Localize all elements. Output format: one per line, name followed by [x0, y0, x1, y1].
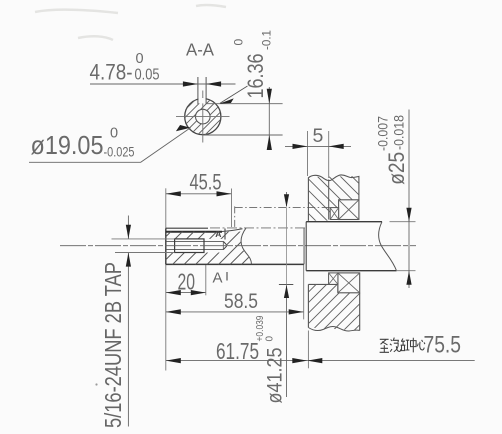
dim 4.78 arrows — [183, 81, 198, 86]
dim ø19.05 leader — [29, 128, 191, 163]
seal bore bottom tick — [279, 284, 293, 286]
drill point — [223, 241, 227, 249]
ext 45.5 right — [231, 189, 233, 228]
svg-text:A-A: A-A — [186, 40, 214, 60]
crankcase lower block outline — [308, 284, 359, 330]
big shaft bottom edge — [306, 270, 396, 272]
dim 4.78 line — [90, 83, 236, 85]
svg-text:0: 0 — [110, 126, 118, 142]
svg-text:ø41.25: ø41.25 — [263, 347, 287, 403]
phantom seal-bore lines — [234, 206, 236, 228]
big shaft break wavy — [379, 222, 397, 271]
svg-text:ø25: ø25 — [384, 152, 409, 185]
ext 20 right — [205, 265, 207, 295]
svg-text:-0.018: -0.018 — [391, 115, 407, 150]
dim 16.36 line — [268, 87, 270, 150]
svg-text:0: 0 — [232, 39, 246, 46]
keyway slot white fill — [199, 98, 206, 103]
svg-text:-0.025: -0.025 — [104, 145, 135, 160]
svg-text:4.78-: 4.78- — [90, 60, 133, 85]
shaft top edge phantom continuation — [210, 227, 306, 229]
svg-text:58.5: 58.5 — [224, 289, 258, 313]
shaft bottom edge — [166, 263, 304, 265]
side view: shaft left face — [165, 228, 167, 264]
crankcase face extension below — [307, 331, 309, 369]
svg-text:5/16-24UNF 2B TAP: 5/16-24UNF 2B TAP — [100, 262, 126, 428]
lower oil seal — [329, 273, 338, 285]
crankcase upper block outline — [308, 175, 359, 221]
svg-text:A: A — [215, 229, 221, 239]
tapped hole thread box — [175, 239, 204, 253]
small shaft end face — [303, 228, 305, 264]
svg-text:-0.007: -0.007 — [375, 116, 391, 151]
svg-text:-0.1: -0.1 — [259, 30, 273, 50]
section hatch — [183, 97, 222, 136]
svg-text:45.5: 45.5 — [190, 170, 222, 195]
shaft top edge — [166, 227, 208, 229]
shaft section circle outer ø19.05 — [185, 99, 221, 135]
svg-text:0: 0 — [265, 336, 276, 342]
svg-text:0.05: 0.05 — [135, 67, 160, 84]
upper bearing — [339, 200, 359, 220]
dim 75.5 to cylinder center — [307, 360, 474, 362]
keyway slot side lines — [197, 77, 199, 104]
dim 16.36 arrows — [267, 89, 272, 104]
centerline axis — [60, 245, 416, 247]
section cut line A stubs — [224, 229, 226, 240]
svg-text:A: A — [213, 269, 223, 286]
shaft break wavy — [241, 228, 252, 264]
svg-text:0: 0 — [136, 51, 144, 67]
lower block hatch — [307, 283, 361, 333]
tapped hole entry — [166, 240, 224, 242]
upper oil seal — [330, 208, 338, 220]
ext 58.5 right (shaft step) — [303, 265, 305, 319]
leader to keyway flat — [220, 86, 248, 103]
svg-text:ø19.05: ø19.05 — [31, 130, 104, 160]
shaft hatch — [164, 227, 253, 266]
dim 16.36 text — [232, 30, 274, 99]
scan smudge top-left — [35, 5, 226, 40]
stray speck — [95, 383, 97, 385]
centerline horizontal of section — [176, 116, 230, 118]
big shaft top edge — [306, 221, 382, 223]
dim 16.36 extension top — [206, 103, 283, 105]
chinese label 至汽缸中心 — [380, 338, 425, 353]
dim ø25 — [375, 115, 410, 185]
extension line left (45.5 / 20 / 58.5 / 61.75) — [165, 188, 167, 228]
lower block wavy bottom — [308, 326, 359, 331]
lower bearing — [338, 273, 360, 293]
svg-text:75.5: 75.5 — [424, 332, 462, 359]
keyway bottom line — [166, 231, 222, 233]
shaft section inner hole — [196, 109, 211, 124]
svg-text:5: 5 — [313, 125, 324, 147]
svg-text:16.36: 16.36 — [243, 54, 268, 99]
big shaft start face — [305, 222, 307, 271]
centerline vertical of section — [202, 91, 204, 143]
upper block hatch — [307, 173, 360, 222]
dim ø41.25 — [255, 315, 287, 403]
svg-text:61.75: 61.75 — [216, 338, 259, 364]
dim 5/16-24UNF 2B TAP — [112, 238, 175, 240]
upper block inner vertical (seal ledge) — [328, 180, 330, 220]
dim 16.36 extension bottom — [203, 134, 283, 136]
